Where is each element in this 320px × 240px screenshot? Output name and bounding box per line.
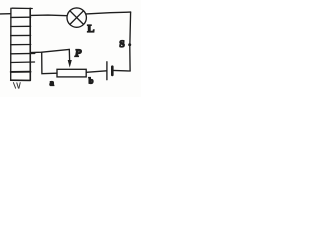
right edge (29, 8, 31, 80)
battery positive plate (long) (106, 62, 108, 80)
right wire lower (129, 46, 131, 71)
svg-text:P: P (75, 48, 82, 59)
svg-text:S: S (119, 40, 124, 50)
rung 2 (11, 25, 31, 27)
top edge (12, 7, 32, 9)
rung 4 (11, 44, 31, 46)
left wire stub (0, 13, 11, 15)
svg-text:a: a (50, 77, 55, 87)
wire: coil to lamp (30, 14, 67, 17)
bottom edge (11, 79, 31, 81)
rheostat body (57, 69, 86, 77)
branch wire down to terminal a (42, 52, 57, 73)
left edge (10, 8, 12, 80)
electromagnet coil (ladder of turns) (11, 8, 35, 80)
bottom-right corner to battery (113, 69, 130, 72)
rung 3 (11, 34, 31, 36)
wire: battery to rheostat (86, 71, 106, 73)
rung 7 (thick) (11, 71, 31, 73)
wiper arrowhead (68, 60, 72, 68)
svg-text:b: b (89, 75, 94, 85)
wire: coil to wiper (30, 49, 69, 52)
wire: lamp to top-right corner (86, 12, 130, 14)
switch S contact dot (128, 43, 131, 46)
svg-text:L: L (87, 24, 94, 35)
small clips hanging below magnet (13, 83, 20, 89)
rung 6 (11, 61, 35, 64)
battery negative plate (short thick) (111, 67, 114, 75)
rung 1 (11, 16, 31, 18)
lamp L (67, 8, 86, 27)
wiper arrow stem (68, 49, 70, 60)
rung 5 (11, 52, 35, 54)
right wire upper (to switch) (129, 12, 132, 43)
